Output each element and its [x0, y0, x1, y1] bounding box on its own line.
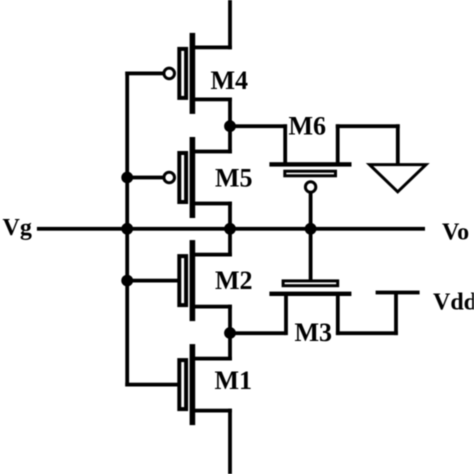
node: M2/M1/M3 junction dot — [224, 327, 236, 339]
wire: M3 right leg and wire to Vdd stem — [336, 293, 398, 336]
node: Vo/M6/M3 gate junction dot — [305, 223, 317, 235]
wire: M4 source to M5 drain (x=230) — [228, 98, 232, 154]
transistor M5 (PMOS) — [125, 137, 232, 218]
power symbol: Vdd supply bar — [376, 291, 420, 295]
transistor M1 (NMOS) — [125, 344, 232, 425]
wire: M3 left leg and wire to node at x=230 — [230, 296, 288, 335]
wire: M6 left leg and wire to node at x=230 — [230, 124, 287, 162]
wire: Vo node down to M3 gate — [309, 229, 313, 280]
wire: main horizontal Vg-to-Vo line — [37, 227, 425, 231]
svg-text:M6: M6 — [289, 112, 327, 141]
svg-text:M1: M1 — [215, 366, 253, 395]
transistor M2 (NMOS) — [125, 240, 232, 321]
svg-text:Vdd: Vdd — [433, 290, 474, 316]
node: M4/M5/M6 junction dot — [224, 120, 236, 132]
svg-text:M3: M3 — [295, 318, 333, 347]
node: rail/M2-gate junction dot — [121, 275, 133, 287]
transistor M3 (NMOS, horizontal) — [269, 281, 351, 296]
wire: M6 gate bubble to Vo node — [309, 193, 313, 231]
svg-text:Vg: Vg — [3, 215, 32, 241]
wire: M5 source to M2 drain (x=230) — [228, 202, 232, 257]
wire: left gate rail (M4..M1 gates) — [125, 72, 129, 387]
wire: top rail from M4 drain to top edge — [228, 0, 232, 49]
wire: M1 source to bottom edge — [228, 409, 232, 474]
node: M5/M2/Vo junction dot — [224, 223, 236, 235]
node: rail/M5-gate junction dot — [121, 172, 133, 184]
node: rail/Vg junction dot — [121, 223, 133, 235]
ground arrow (open triangle) — [370, 165, 427, 192]
wire: M2 source to M1 drain (x=230) — [228, 305, 232, 361]
wire: M6 right leg and wire to arrow stem — [336, 124, 400, 165]
svg-text:M2: M2 — [215, 266, 253, 295]
svg-text:Vo: Vo — [442, 220, 469, 246]
transistor M6 (PMOS, horizontal) — [269, 162, 351, 192]
svg-text:M5: M5 — [215, 164, 253, 193]
svg-text:M4: M4 — [211, 66, 249, 95]
transistor M4 (PMOS) — [125, 33, 232, 114]
